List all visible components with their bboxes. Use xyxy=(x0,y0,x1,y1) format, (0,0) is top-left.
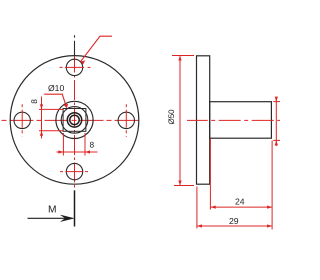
dimension 8 horizontal (square flats) xyxy=(57,133,98,156)
wire: side view horizontal centerline xyxy=(187,119,280,121)
bolt hole right xyxy=(118,112,134,128)
svg-text:29: 29 xyxy=(229,216,239,226)
svg-text:M: M xyxy=(48,205,57,216)
svg-text:24: 24 xyxy=(235,197,245,207)
hub Ø10 circle xyxy=(61,107,88,134)
bore thread outer circle xyxy=(67,113,81,127)
view arrow M line xyxy=(28,217,67,219)
side view flange plate xyxy=(197,56,210,184)
node: left hole vertical centerline xyxy=(21,104,23,136)
svg-text:8: 8 xyxy=(29,99,39,104)
node: top hole horizontal centerline xyxy=(60,66,91,68)
leader to top hole xyxy=(81,36,112,61)
side view hub xyxy=(210,102,272,139)
dimension 29 xyxy=(197,187,272,229)
svg-text:Ø50: Ø50 xyxy=(167,109,176,125)
wire: front view horizontal centerline (red dash-dot) xyxy=(2,119,142,121)
svg-text:Ø10: Ø10 xyxy=(48,83,64,93)
node: bottom hole horizontal centerline xyxy=(60,171,91,173)
dimension right cut-off (hub diameter) xyxy=(273,98,280,147)
bolt hole left xyxy=(14,112,30,128)
svg-text:8: 8 xyxy=(90,140,95,150)
hub outer circle xyxy=(56,101,93,138)
flange outer circle (front view, Ø50) xyxy=(10,56,139,185)
bore thread inner circle xyxy=(70,115,79,124)
dimension 8 vertical (square flats) xyxy=(39,97,63,139)
dimension 24 xyxy=(210,139,272,230)
node: right hole vertical centerline xyxy=(125,104,127,137)
leader for Ø10 xyxy=(44,94,66,107)
view arrow M head xyxy=(61,215,74,221)
view arrow M reference line xyxy=(74,190,76,226)
dimension Ø50 xyxy=(172,56,194,186)
wire: front view vertical centerline top black dash xyxy=(74,35,76,55)
hub square 8x8 xyxy=(63,109,86,132)
wire: front view vertical centerline (red dash-dot) xyxy=(74,56,76,190)
bolt hole bottom xyxy=(66,163,82,179)
bolt hole top xyxy=(66,59,82,75)
